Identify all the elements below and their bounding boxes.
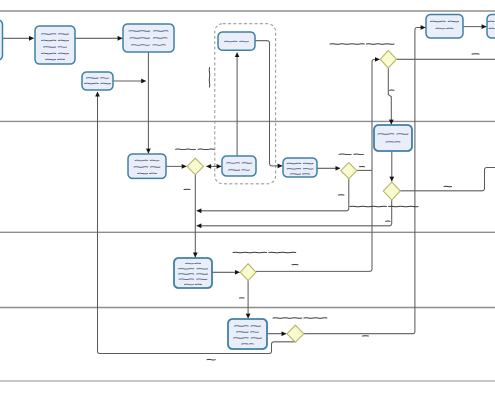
task I: assign new experts <box>374 125 412 151</box>
label YES (gateway M) <box>386 220 391 222</box>
rotated label: dow martabe (twice) <box>208 68 211 88</box>
task K: send defects to applicant <box>222 156 256 176</box>
label YES (gateway O) <box>240 297 245 299</box>
task D: fix deficiency by applicant <box>82 72 113 90</box>
wire: upload-pledge to right task <box>463 26 486 28</box>
label: experts passed exam? <box>233 251 267 254</box>
wire: send-defects up to fix-defects task <box>236 53 238 156</box>
wire: new-experts NO exits right <box>400 168 495 191</box>
label NO (2nd deficiency) <box>339 194 345 196</box>
label YES (gateway H) <box>390 89 395 91</box>
wire: left edge task to task B <box>3 37 34 39</box>
wire: exam YES down to council evaluation <box>247 281 249 319</box>
label YES (2nd deficiency) <box>360 166 365 168</box>
task F: upload pledge to system <box>426 15 463 39</box>
lane boundary 2 <box>0 120 495 122</box>
wire: expert evaluation to exam gateway <box>212 271 240 273</box>
label NO (gateway M) <box>444 185 452 188</box>
task B: receive entry link, issue permit <box>35 26 75 64</box>
gateway M: new experts approved? <box>383 182 400 200</box>
wire: fix-defects task to secondary evaluation <box>255 41 282 166</box>
gateway O: experts passed exam? <box>240 264 256 281</box>
lane boundary 3 <box>0 231 495 233</box>
lane boundary 1 (top) <box>0 10 495 12</box>
wire: task C down to initial evaluation <box>147 52 149 153</box>
label: file approved? <box>273 317 302 320</box>
label NO (gateway O) <box>292 264 298 266</box>
wire: task B to task C <box>74 37 122 39</box>
gateway R: file approved? <box>287 325 304 342</box>
label NO (gateway J) <box>184 188 190 190</box>
gateway: file has deficiency? (2nd) <box>341 163 357 179</box>
lane boundary 5 (bottom, lighter) <box>0 380 495 382</box>
label YES (gateway R) <box>363 335 369 337</box>
wire: final-approval NO loop back up to fix-deficiency task <box>98 92 296 354</box>
gateway J: file has deficiency? (1st) <box>187 158 203 174</box>
label: want to change experts? <box>330 43 364 46</box>
wire: initial evaluation to deficiency gateway <box>166 165 186 167</box>
task N: evaluate experts via written exam and interview <box>174 258 212 288</box>
label: file has deficiency? (2nd) <box>339 153 351 156</box>
wire: new-experts YES left to evaluation line <box>197 200 392 226</box>
gateway H: want to change experts? <box>380 51 396 69</box>
task Q: file evaluation by strategic management council <box>228 319 267 349</box>
wire: change-experts NO exits right <box>396 58 495 60</box>
label NO (gateway H) <box>472 53 479 55</box>
task C: upload required documents within 24h <box>123 24 174 52</box>
wire: deficiency gateway to send-defects (double head) <box>207 165 222 167</box>
task: fix defects (in dashed group) <box>218 32 255 50</box>
task E: initial evaluation by organization <box>128 154 166 178</box>
wire: change-experts YES down to assign-new-experts <box>388 68 391 124</box>
wire: second-deficiency YES joins loop <box>357 169 372 171</box>
wire: second-deficiency NO left to evaluation line <box>197 179 349 211</box>
wire: first-deficiency NO down to expert evaluation <box>194 175 196 258</box>
label NO (gateway R) <box>207 358 215 361</box>
task G (cut off at right edge) <box>487 15 495 39</box>
wire: fix-deficiency task to vertical line <box>113 80 146 82</box>
wire: secondary evaluation to second deficiency gateway <box>317 167 340 169</box>
task L: secondary evaluation by organization <box>283 158 317 177</box>
label: file has deficiency? (1st) <box>176 148 196 151</box>
task A (cut off at left edge) <box>0 20 3 60</box>
wire: exam NO loop up to change-experts gateway <box>256 59 380 271</box>
wire: assign-new-experts down to approval gateway <box>391 151 393 181</box>
dashed sub-process group (two attempts) <box>215 24 276 184</box>
label: new experts approved? <box>350 205 386 208</box>
wire: council evaluation to final gateway <box>267 333 286 335</box>
wire: final-approval YES up to upload-pledge task <box>304 28 425 334</box>
lane boundary 4 <box>0 307 495 309</box>
